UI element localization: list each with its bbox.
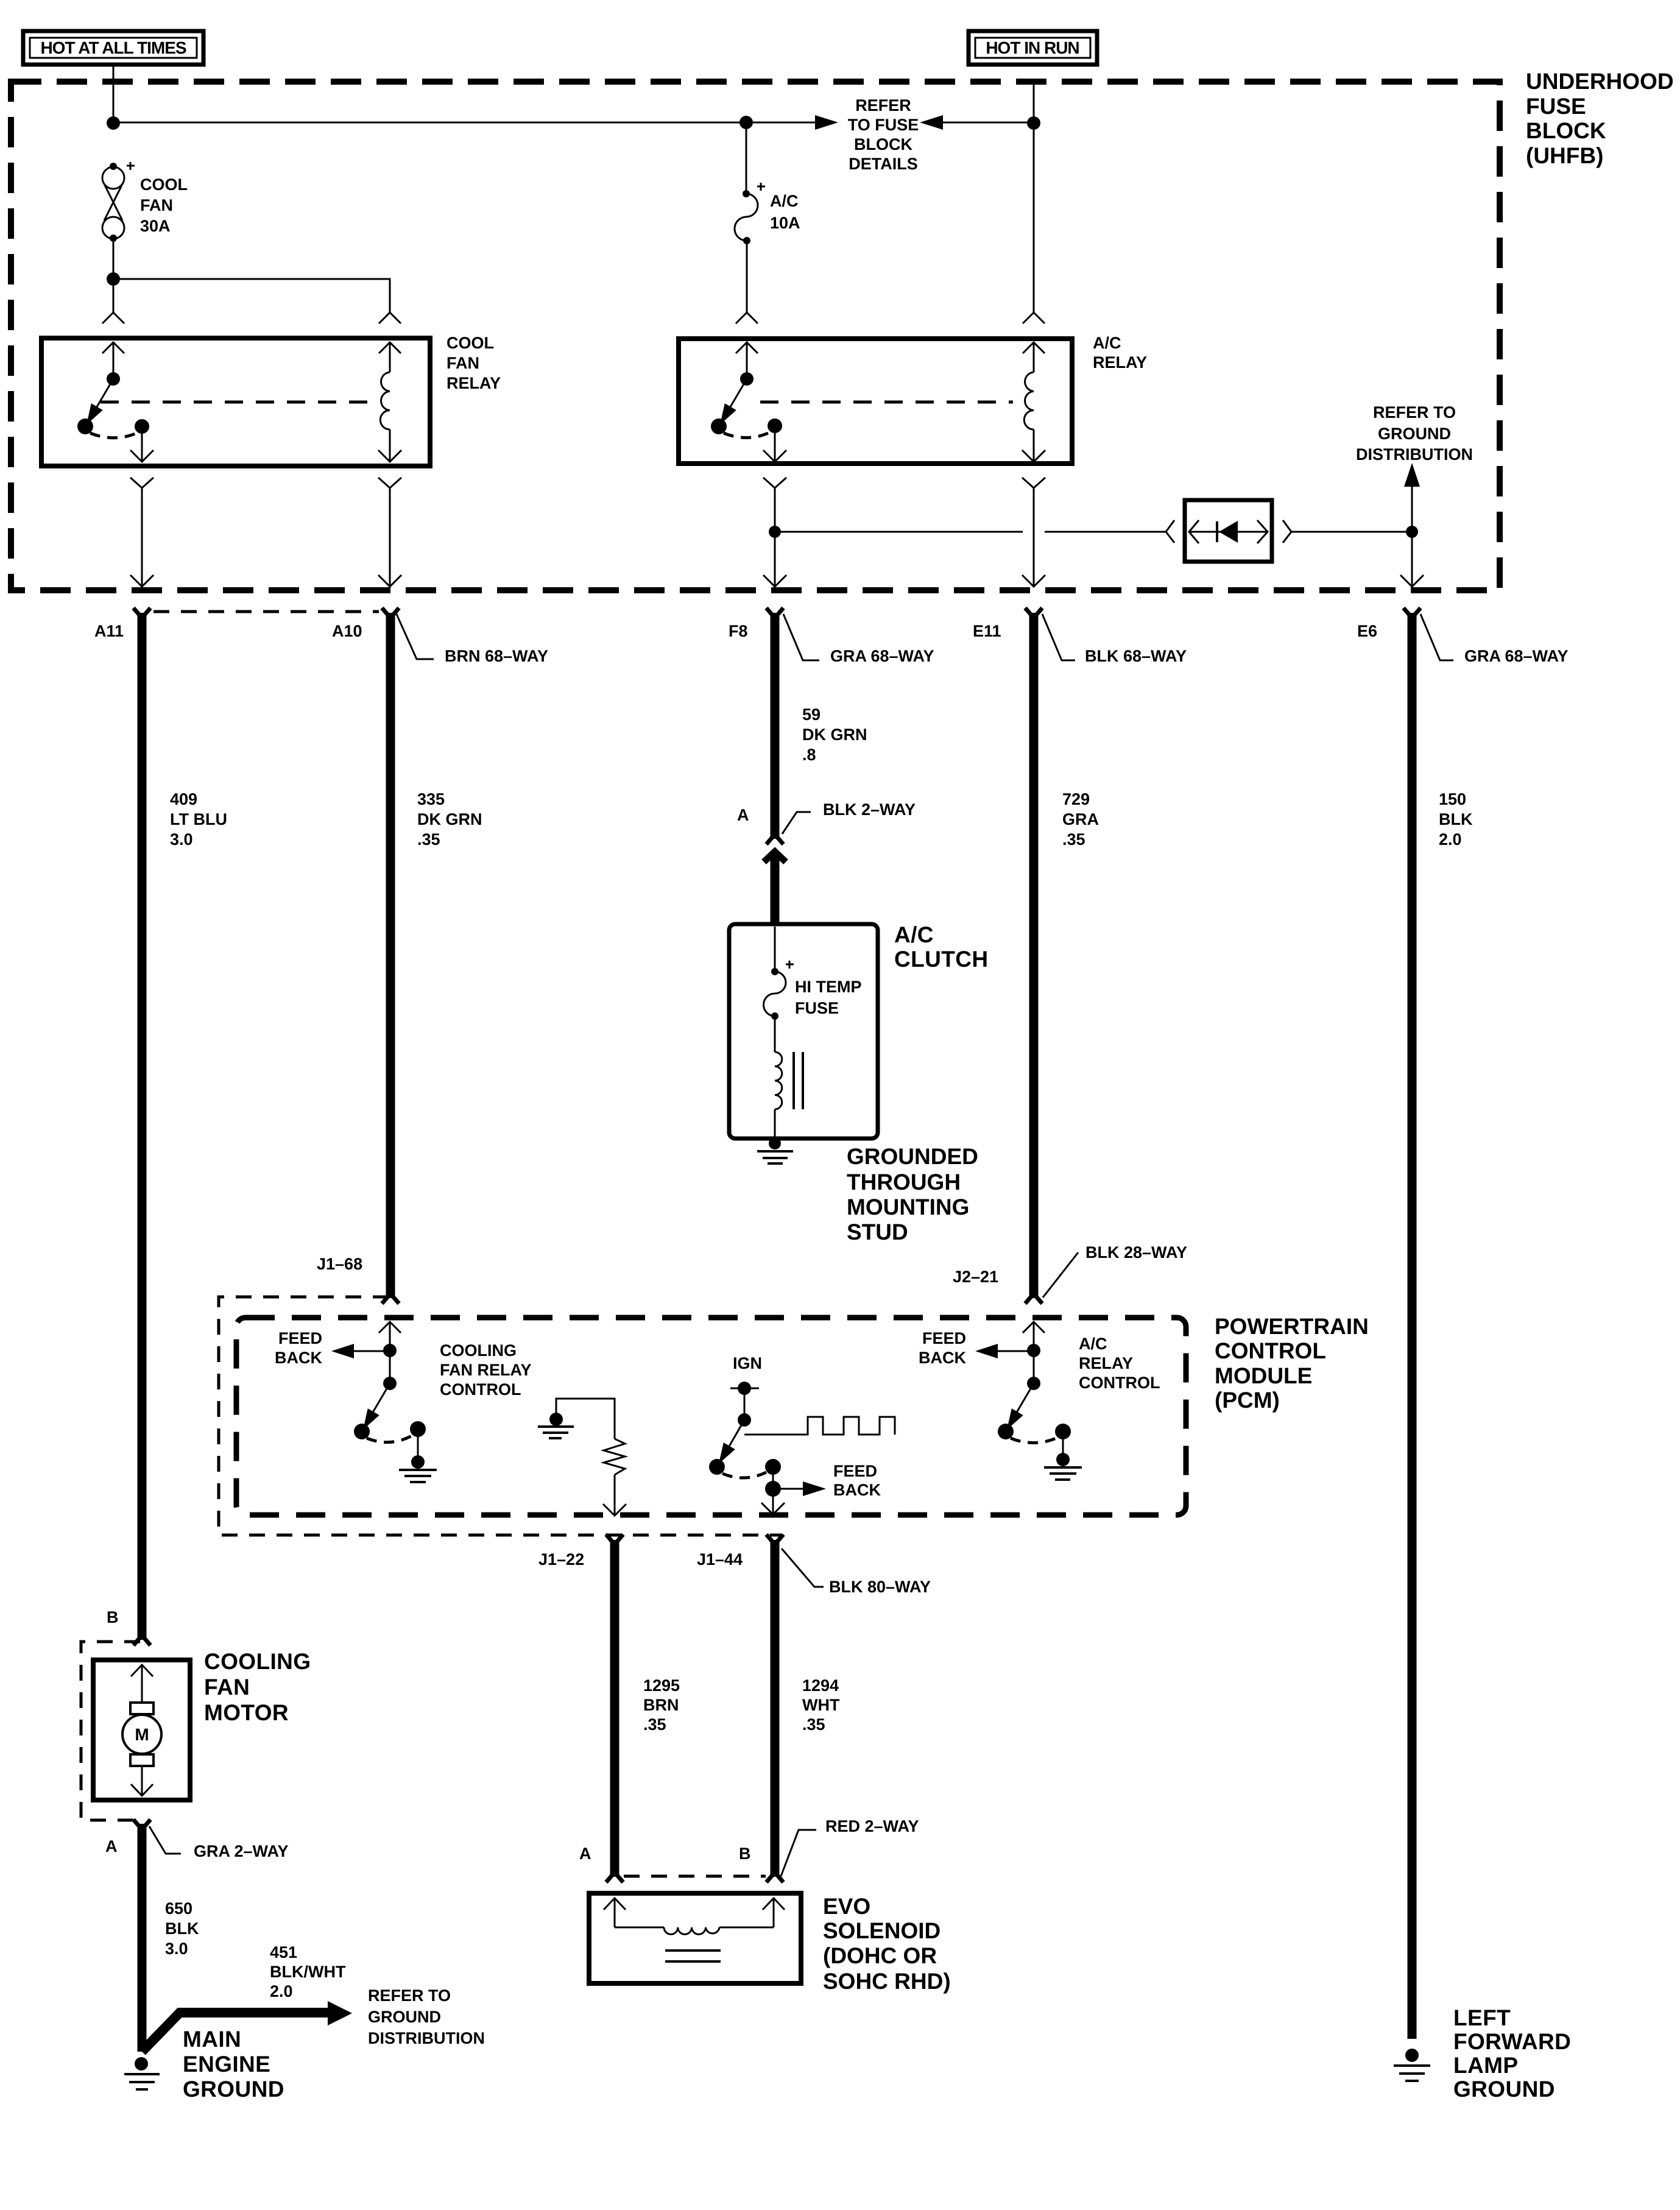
svg-text:DETAILS: DETAILS: [849, 155, 918, 173]
component EVO SOLENOID box: [589, 1893, 801, 1983]
connector fork below relay K2 coil: [1022, 478, 1045, 488]
relay K2 actuator dashed link: [760, 401, 1013, 404]
svg-text:F8: F8: [729, 622, 748, 640]
svg-text:1295: 1295: [643, 1676, 680, 1695]
svg-text:A11: A11: [94, 622, 124, 640]
wire diode to ground trunk: [1291, 531, 1412, 533]
svg-text:DISTRIBUTION: DISTRIBUTION: [1356, 445, 1473, 464]
pointer GRA 2-WAY: [149, 1826, 289, 1860]
label A/C CLUTCH: [894, 922, 988, 972]
svg-text:150: 150: [1439, 790, 1466, 808]
connector chevron right of diode: [1283, 520, 1291, 543]
svg-text:LT BLU: LT BLU: [170, 810, 227, 828]
svg-text:FAN: FAN: [204, 1675, 250, 1700]
svg-text:335: 335: [417, 790, 445, 808]
label COOL FAN RELAY: [446, 334, 501, 392]
node cool fan branch junction: [107, 272, 120, 286]
svg-text:A/C: A/C: [1079, 1335, 1107, 1353]
connector chevron into clutch: [764, 852, 786, 862]
svg-text:BLK: BLK: [165, 1919, 199, 1938]
wire NO contact down (evo driver): [765, 1467, 781, 1497]
coil EVO solenoid internals: [604, 1898, 785, 1961]
svg-text:COOL: COOL: [140, 175, 188, 194]
connector fork above relay K1 switch: [102, 312, 124, 323]
svg-text:10A: 10A: [770, 214, 800, 232]
svg-text:A: A: [737, 806, 749, 824]
wire K1 coil to border: [378, 488, 401, 587]
svg-text:B: B: [739, 1845, 751, 1863]
arrow FEED BACK (a/c): [919, 1329, 1034, 1367]
wire K1 output to border: [130, 488, 154, 587]
svg-text:B: B: [107, 1608, 119, 1626]
svg-text:A/C: A/C: [770, 192, 799, 210]
label LEFT FORWARD LAMP GROUND: [1453, 2005, 1571, 2102]
PCM driver switch arm (ign/evo): [709, 1420, 781, 1478]
svg-text:IGN: IGN: [733, 1354, 762, 1372]
wire label 1295 BRN .35: [643, 1676, 680, 1734]
svg-text:LEFT: LEFT: [1453, 2005, 1511, 2030]
svg-text:REFER: REFER: [855, 96, 911, 115]
label COOLING FAN MOTOR: [204, 1649, 311, 1725]
PCM driver switch arm (a/c relay): [998, 1383, 1071, 1443]
wire E6 trunk: [1403, 608, 1421, 2039]
svg-text:COOL: COOL: [446, 334, 494, 352]
svg-text:RED 2–WAY: RED 2–WAY: [825, 1817, 919, 1835]
wire F8 trunk: [766, 608, 783, 844]
relay K1 contact dashed arc: [90, 433, 135, 438]
wire K2 output to border: [763, 488, 786, 587]
fuse HI TEMP FUSE: [764, 961, 862, 1020]
svg-text:GRA 68–WAY: GRA 68–WAY: [830, 647, 934, 665]
svg-text:GROUNDED: GROUNDED: [847, 1144, 978, 1169]
fuse COOL FAN 30A: [102, 162, 188, 242]
label COOLING FAN RELAY CONTROL: [440, 1341, 532, 1399]
pointer GRA 68-WAY (E6): [1421, 614, 1569, 665]
svg-text:.35: .35: [1062, 830, 1085, 849]
svg-text:DK GRN: DK GRN: [802, 725, 867, 744]
wire label 59 DK GRN .8: [802, 705, 867, 764]
wire label 150 BLK 2.0: [1439, 790, 1473, 849]
svg-text:BACK: BACK: [919, 1349, 966, 1367]
svg-text:GRA 2–WAY: GRA 2–WAY: [194, 1842, 289, 1860]
svg-text:WHT: WHT: [802, 1696, 840, 1714]
svg-text:MAIN: MAIN: [183, 2027, 241, 2052]
arrow left to REFER TO FUSE BLOCK DETAILS: [920, 115, 943, 130]
svg-text:BACK: BACK: [833, 1481, 881, 1499]
relay K2 NO contact: [768, 418, 782, 433]
svg-text:POWERTRAIN: POWERTRAIN: [1215, 1314, 1369, 1339]
svg-text:GROUND: GROUND: [1378, 425, 1451, 443]
svg-text:LAMP: LAMP: [1453, 2053, 1518, 2078]
square wave PWM symbol: [744, 1417, 895, 1435]
svg-text:A/C: A/C: [1093, 334, 1121, 352]
arrow FEED BACK (evo): [773, 1462, 881, 1499]
svg-text:RELAY: RELAY: [446, 374, 501, 392]
connector dashed line A11-A10: [154, 610, 379, 613]
svg-text:BRN: BRN: [643, 1696, 679, 1714]
svg-text:30A: 30A: [140, 217, 171, 235]
svg-text:GRA: GRA: [1062, 810, 1099, 828]
label A/C RELAY CONTROL: [1079, 1335, 1160, 1392]
svg-text:GROUND: GROUND: [183, 2077, 284, 2102]
relay K1 switch output: [130, 426, 154, 462]
svg-text:3.0: 3.0: [170, 830, 193, 849]
arrow right to REFER TO FUSE BLOCK DETAILS: [815, 115, 838, 130]
wire E6 to border: [1400, 532, 1424, 587]
svg-text:HOT AT ALL TIMES: HOT AT ALL TIMES: [40, 38, 186, 57]
connector chevron left of diode: [1166, 520, 1174, 543]
node HOT IN RUN junction: [1027, 116, 1040, 130]
node diode tap on K2 output: [769, 526, 781, 538]
svg-text:.35: .35: [417, 830, 440, 849]
wire A/C fuse to relay: [746, 241, 748, 312]
power label box HOT AT ALL TIMES: [23, 31, 203, 65]
svg-text:2.0: 2.0: [270, 1982, 293, 2000]
svg-text:GRA 68–WAY: GRA 68–WAY: [1464, 647, 1569, 665]
node A/C fuse branch junction: [739, 116, 753, 129]
ground LEFT FORWARD LAMP GROUND: [1394, 2049, 1430, 2081]
svg-text:(PCM): (PCM): [1215, 1388, 1280, 1413]
svg-text:409: 409: [170, 790, 197, 808]
svg-text:TO FUSE: TO FUSE: [848, 116, 919, 134]
wire branch to cool fan relay coil: [113, 279, 390, 312]
wire connector to clutch: [771, 856, 780, 926]
svg-text:A: A: [105, 1837, 118, 1855]
svg-text:2.0: 2.0: [1439, 830, 1462, 849]
svg-text:FUSE: FUSE: [1526, 94, 1586, 119]
node IGN input: [730, 1354, 762, 1427]
svg-text:RELAY: RELAY: [1079, 1354, 1133, 1372]
svg-text:FAN: FAN: [140, 196, 173, 214]
svg-text:.8: .8: [802, 746, 816, 764]
wire J1-44 trunk: [766, 1534, 783, 1882]
svg-text:J1–44: J1–44: [697, 1550, 743, 1569]
node battery feed junction: [107, 116, 120, 130]
wire A10 trunk: [382, 608, 399, 1304]
label POWERTRAIN CONTROL MODULE (PCM): [1215, 1314, 1369, 1413]
wire label 1294 WHT .35: [802, 1676, 840, 1734]
arrow FEED BACK (left): [275, 1329, 390, 1367]
wire fuse to lower junction: [113, 238, 115, 279]
label MAIN ENGINE GROUND: [183, 2027, 284, 2102]
svg-text:FUSE: FUSE: [795, 999, 839, 1017]
svg-text:(DOHC OR: (DOHC OR: [823, 1943, 937, 1968]
label A/C RELAY: [1093, 334, 1147, 372]
svg-text:MOUNTING: MOUNTING: [847, 1195, 969, 1220]
svg-text:.35: .35: [802, 1715, 825, 1734]
svg-text:SOHC RHD): SOHC RHD): [823, 1969, 951, 1994]
wire diode row mid segment: [1045, 531, 1165, 533]
ground internal (a/c driver): [1044, 1432, 1082, 1480]
connector fork below relay K2 switch: [763, 478, 786, 488]
connector fork above relay K2 coil: [1023, 312, 1045, 323]
coil clutch solenoid: [775, 1016, 803, 1137]
svg-text:E6: E6: [1357, 622, 1377, 640]
svg-text:729: 729: [1062, 790, 1090, 808]
pointer BRN 68-WAY: [396, 613, 548, 665]
PCM cooling fan relay driver input: [379, 1322, 401, 1390]
svg-text:BLK 80–WAY: BLK 80–WAY: [829, 1578, 931, 1596]
svg-text:J1–68: J1–68: [317, 1255, 362, 1273]
label GROUNDED THROUGH MOUNTING STUD: [847, 1144, 978, 1244]
svg-text:THROUGH: THROUGH: [847, 1170, 961, 1195]
connector fork above relay K1 coil: [379, 312, 401, 323]
wire label 409 LT BLU 3.0: [170, 790, 227, 849]
svg-text:FAN RELAY: FAN RELAY: [440, 1361, 532, 1379]
svg-text:RELAY: RELAY: [1093, 353, 1147, 372]
connector fork above relay K2 switch: [736, 312, 758, 323]
svg-text:650: 650: [165, 1899, 192, 1918]
svg-text:DK GRN: DK GRN: [417, 810, 482, 828]
svg-text:M: M: [135, 1725, 149, 1744]
pointer BLK 2-WAY: [782, 800, 916, 834]
relay K2 switch output: [763, 426, 786, 462]
wire clutch internal top: [774, 927, 776, 972]
fuse A/C 10A: [735, 123, 800, 244]
svg-text:A10: A10: [332, 622, 362, 640]
PCM a/c relay driver input: [1023, 1322, 1045, 1390]
wire label 650 BLK 3.0: [165, 1899, 199, 1958]
diode module box: [1185, 500, 1272, 562]
power label box HOT IN RUN: [969, 31, 1097, 65]
svg-text:CONTROL: CONTROL: [1215, 1338, 1326, 1363]
arrow up REFER TO GROUND DISTRIBUTION: [1404, 463, 1420, 532]
svg-text:GROUND: GROUND: [368, 2008, 441, 2026]
PCM module dashed box: [236, 1318, 1186, 1515]
connector fork below relay K1 coil: [378, 478, 401, 488]
relay K1 switch arm: [77, 379, 113, 434]
underhood fuse block dashed border: [11, 82, 1500, 590]
relay K1 switch common input: [102, 342, 124, 386]
wire branch to ground distribution: [142, 2001, 352, 2052]
svg-text:451: 451: [270, 1943, 297, 1961]
motor M1 internals: [122, 1665, 161, 1796]
pointer BLK 80-WAY: [782, 1548, 931, 1596]
svg-text:EVO: EVO: [823, 1894, 870, 1919]
label REFER TO GROUND DISTRIBUTION (bottom): [368, 1986, 485, 2047]
wire motor ground trunk: [133, 1820, 150, 2052]
svg-text:BLOCK: BLOCK: [1526, 118, 1606, 143]
relay K1 COOL FAN RELAY box: [41, 338, 430, 466]
label EVO SOLENOID (DOHC OR SOHC RHD): [823, 1894, 951, 1994]
svg-text:FEED: FEED: [278, 1329, 322, 1347]
label UNDERHOOD FUSE BLOCK (UHFB): [1526, 69, 1674, 168]
svg-text:HOT IN RUN: HOT IN RUN: [986, 38, 1079, 57]
relay K2 switch arm: [711, 379, 747, 434]
wire diode row left segment: [775, 531, 1023, 533]
component COOLING FAN MOTOR box: [93, 1660, 190, 1800]
svg-text:BLK 2–WAY: BLK 2–WAY: [823, 800, 916, 819]
wire from HOT AT ALL TIMES down: [113, 65, 115, 123]
ground internal (cool fan driver): [399, 1429, 437, 1482]
relay K2 switch common input: [736, 342, 758, 386]
connector fork below relay K1 switch: [130, 478, 154, 488]
wire label 335 DK GRN .35: [417, 790, 482, 849]
ground MAIN ENGINE GROUND: [124, 2057, 160, 2089]
svg-text:CONTROL: CONTROL: [1079, 1374, 1160, 1392]
wire from HOT IN RUN down: [1033, 82, 1035, 312]
svg-text:59: 59: [802, 705, 821, 724]
svg-text:SOLENOID: SOLENOID: [823, 1918, 941, 1943]
label REFER TO GROUND DISTRIBUTION: [1356, 403, 1473, 464]
svg-text:BACK: BACK: [275, 1349, 322, 1367]
svg-text:E11: E11: [973, 622, 1001, 640]
relay K2 A/C RELAY box: [679, 339, 1072, 464]
svg-text:.35: .35: [643, 1715, 666, 1734]
component A/C CLUTCH box: [729, 924, 878, 1139]
svg-text:COOLING: COOLING: [440, 1341, 517, 1360]
PCM connector dashed boundary: [219, 1297, 781, 1535]
wire K2 coil to border: [1022, 488, 1045, 587]
cooling fan motor connector dashed box: [81, 1642, 140, 1820]
wire A11 trunk: [133, 608, 150, 1645]
svg-text:GROUND: GROUND: [1453, 2077, 1555, 2102]
pointer RED 2-WAY: [781, 1817, 919, 1876]
svg-text:1294: 1294: [802, 1676, 839, 1695]
PCM internal ground + resistor branch: [538, 1399, 615, 1439]
svg-text:ENGINE: ENGINE: [183, 2052, 270, 2077]
svg-text:MOTOR: MOTOR: [204, 1700, 289, 1725]
svg-text:REFER TO: REFER TO: [1373, 403, 1456, 422]
svg-text:(UHFB): (UHFB): [1526, 143, 1603, 168]
relay K1 actuator dashed link: [101, 401, 369, 404]
svg-text:BLK 68–WAY: BLK 68–WAY: [1085, 647, 1187, 665]
pointer BLK 68-WAY (E11): [1042, 614, 1187, 665]
svg-text:BLK/WHT: BLK/WHT: [270, 1963, 346, 1981]
svg-text:UNDERHOOD: UNDERHOOD: [1526, 69, 1674, 94]
svg-text:A/C: A/C: [894, 922, 934, 947]
svg-text:3.0: 3.0: [165, 1940, 188, 1958]
svg-text:STUD: STUD: [847, 1220, 908, 1244]
wire junction down to relay switch: [113, 279, 115, 312]
svg-text:BLOCK: BLOCK: [854, 135, 912, 154]
ground clutch mounting stud: [757, 1137, 793, 1163]
svg-text:J1–22: J1–22: [538, 1550, 584, 1569]
svg-text:FAN: FAN: [446, 354, 479, 372]
svg-text:REFER TO: REFER TO: [368, 1986, 451, 2005]
relay K1 coil: [378, 342, 401, 462]
wire label 451 BLK/WHT 2.0: [270, 1943, 346, 2000]
svg-text:CONTROL: CONTROL: [440, 1380, 521, 1399]
svg-text:BRN 68–WAY: BRN 68–WAY: [445, 647, 548, 665]
wire from HOT IN RUN junction to arrow: [942, 122, 1034, 124]
wire top bus toward fuse block details: [113, 122, 817, 124]
svg-text:HI TEMP: HI TEMP: [795, 978, 862, 996]
svg-text:MODULE: MODULE: [1215, 1363, 1312, 1388]
svg-text:A: A: [579, 1845, 591, 1863]
svg-text:FORWARD: FORWARD: [1453, 2029, 1571, 2054]
wire label 729 GRA .35: [1062, 790, 1099, 849]
resistor R1: [604, 1439, 625, 1475]
node E6 junction: [1406, 526, 1418, 538]
PCM driver switch arm (cool fan): [354, 1383, 426, 1442]
svg-text:CLUTCH: CLUTCH: [894, 947, 988, 972]
label REFER TO FUSE BLOCK DETAILS: [848, 96, 919, 173]
svg-text:FEED: FEED: [922, 1329, 966, 1347]
svg-text:FEED: FEED: [833, 1462, 877, 1480]
connector dashed line evo A-B: [624, 1875, 766, 1878]
wire E11 trunk: [1025, 608, 1042, 1304]
relay K1 NO contact: [135, 419, 149, 434]
relay K2 coil: [1022, 342, 1045, 462]
diode D1: [1189, 520, 1268, 543]
svg-text:BLK: BLK: [1439, 810, 1473, 828]
wire evo driver to J1-44: [761, 1489, 785, 1514]
relay K2 contact dashed arc: [724, 433, 768, 438]
svg-text:COOLING: COOLING: [204, 1649, 311, 1674]
wire J1-22 trunk: [606, 1534, 623, 1882]
svg-text:DISTRIBUTION: DISTRIBUTION: [368, 2029, 485, 2047]
pointer GRA 68-WAY (F8): [783, 614, 934, 665]
svg-text:J2–21: J2–21: [953, 1268, 998, 1286]
wire resistor to J1-22: [603, 1475, 626, 1516]
pointer BLK 28-WAY: [1043, 1243, 1187, 1297]
svg-text:BLK 28–WAY: BLK 28–WAY: [1085, 1243, 1187, 1262]
